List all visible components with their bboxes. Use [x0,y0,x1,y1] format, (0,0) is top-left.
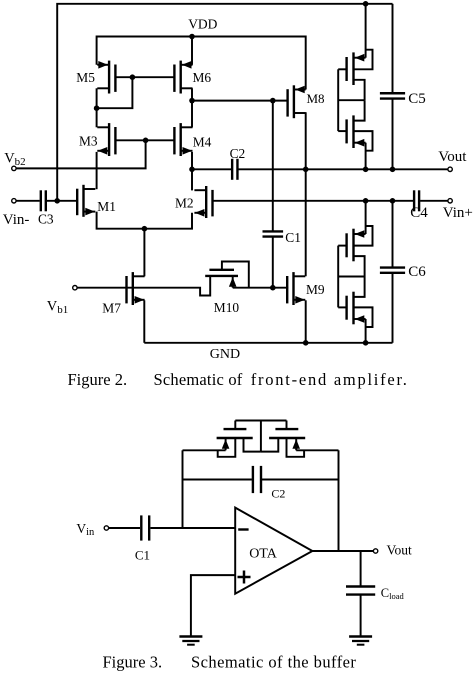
svg-text:M8: M8 [307,91,325,106]
label M3 [79,133,98,148]
wire: Vb2 line [16,140,146,168]
wire: Vin+ line to bottom stack [365,201,367,234]
transistor M8 [288,85,306,118]
label Vin- [3,212,30,228]
junction: M1 gate / top-rail wire [54,198,60,204]
terminal Vin- [12,199,16,203]
label C1 [285,230,301,245]
OTA inverting input sign [238,528,248,530]
wire: Vout to Cload [360,551,362,587]
label Vin+ [443,205,473,221]
pseudo-resistor transistor MF2 [261,421,305,457]
transistor M3 [97,123,115,156]
wire: tail to M7 drain [143,229,145,277]
wire: M5 drain to M3 source [96,88,98,127]
wire: C5 branch upper [392,4,394,94]
transistor M9 [287,272,305,305]
label Vout (buffer) [387,543,413,558]
label M5 [76,70,95,85]
svg-text:M3: M3 [79,133,98,148]
terminal Vin+ [448,199,452,203]
svg-text:M6: M6 [193,70,212,85]
wire: M2 drain [191,169,193,190]
transistor M4 [174,123,192,156]
label Vb2 [4,150,25,168]
capacitor C4 [414,190,419,211]
label C4 [410,205,428,221]
wire: C1 to OTA inverting input [151,527,236,529]
wire: C2 line left [183,479,252,481]
wire: differential pair tail [97,212,192,229]
wire: C6 branch upper [392,201,394,268]
transistor M2 [194,186,212,218]
junction: M6 source on VDD rail [189,34,195,40]
svg-text:C3: C3 [38,212,54,227]
svg-text:Figure 2.: Figure 2. [68,370,128,389]
svg-text:M5: M5 [76,70,95,85]
label Cload [381,586,405,601]
label C2 (buffer) [271,487,285,501]
junction: M9 source on GND [303,340,309,346]
wire: OTA output to Vout [312,550,373,552]
svg-text:M9: M9 [306,282,325,297]
transistor M5 [97,61,115,94]
junction: Vb2 tap on gate line [143,138,149,144]
label Vout [438,149,467,165]
svg-text:Vin-: Vin- [3,212,30,228]
junction: top rail / stack top [363,1,369,7]
label Vb1 [47,298,68,316]
label M7 [102,301,121,316]
svg-text:C2: C2 [230,146,246,161]
svg-text:Schematic of: Schematic of [154,370,243,389]
junction: C6 top on Vin+ line [390,198,396,204]
terminal Vb1 [73,286,77,290]
wire: Cload to ground [360,595,362,637]
svg-text:C1: C1 [135,548,150,563]
label M6 [193,70,212,85]
wire: M9 source to GND rail [305,300,307,343]
label Vin (buffer) [76,521,95,538]
svg-text:M10: M10 [214,300,240,315]
junction: stack bottom on Vout line [363,167,369,173]
label GND [210,347,240,362]
terminal Vb2 [12,166,16,170]
transistor M7 [127,272,145,305]
ground (OTA + input) [179,637,202,645]
junction: C5 bottom on Vout line [390,167,396,173]
svg-text:C6: C6 [408,264,426,280]
wire: Vout line [238,168,448,170]
svg-text:front-end amplifer.: front-end amplifer. [251,370,409,389]
capacitor C5 [380,93,405,98]
label C5 [408,91,426,107]
svg-text:M2: M2 [175,196,194,211]
junction: C1 top tap [270,98,276,104]
terminal Vout [448,167,452,171]
capacitor C1 [263,231,284,236]
wire: bottom stack to GND rail [365,319,367,343]
wire: M9 drain to M8 drain [305,112,307,276]
wire: first-stage output to C2 [192,168,231,170]
svg-text:Vout: Vout [438,149,467,165]
wire: M5 diode connection link [97,77,133,108]
wire: M5-M6 gate line [115,76,174,78]
label M10 [214,300,240,315]
junction: bottom stack top on Vin+ line [363,198,369,204]
wire: OTA + input to ground [191,575,235,636]
wire: C5 branch lower [392,99,394,170]
wire: C1 branch upper [272,101,274,232]
OTA non-inverting input sign [238,571,251,584]
wire: left rail line [183,449,226,451]
wire: Vin- line to M1 gate [16,200,77,202]
terminal Vout (buffer) [373,549,377,553]
svg-text:C2: C2 [271,487,285,501]
terminal Vin (buffer) [104,526,108,530]
label M4 [193,134,212,149]
wire: M3 drain to M1 drain [96,152,98,189]
wire: M7 source to GND rail [143,300,145,343]
wire: left feedback rail [182,450,184,528]
wire: Vin to C1 [109,527,140,529]
wire: M4 drain to output node of first stage [191,152,193,169]
svg-text:C1: C1 [285,230,301,245]
junction: C1 bottom node [270,285,276,291]
wire: GND rail [144,342,392,344]
label C1 (buffer) [135,548,150,563]
wire: C6 branch lower to GND corner [392,273,394,343]
transistor M10 [205,262,288,288]
wire: M2 gate line / Vin+ line [213,200,448,202]
label C2 [230,146,246,161]
caption figure 2 [68,370,409,389]
wire: gates tie bar [235,420,286,422]
wire: C2 line right [262,479,339,481]
svg-text:M1: M1 [97,199,116,214]
label OTA [249,547,278,562]
junction: M8 gate tap on M6 drain [189,98,195,104]
capacitor C6 [380,268,405,273]
wire: top rail to pseudo-resistor stack [365,4,367,58]
label M1 [97,199,116,214]
svg-text:C5: C5 [408,91,426,107]
svg-text:Schematic of the buffer: Schematic of the buffer [191,652,356,671]
wire: right rail line [296,449,338,451]
transistor M6 [174,61,192,94]
label M2 [175,196,194,211]
pseudo-resistor transistor MF1 [217,421,261,457]
svg-text:Vin+: Vin+ [443,205,473,221]
capacitor C2 [232,159,237,180]
op-amp OTA [235,508,312,594]
capacitor C3 [41,190,46,211]
junction: gate line tap [130,74,136,80]
wire: C1 branch lower [272,237,274,288]
label C6 [408,264,426,280]
capacitor C1 (buffer) [141,515,149,540]
caption figure 3 [103,652,357,671]
junction: M4/M2 drain node [189,167,195,173]
transistor M1 [77,185,95,217]
label M8 [307,91,325,106]
svg-text:OTA: OTA [249,547,278,562]
svg-text:M4: M4 [193,134,212,149]
junction: tail node [142,226,148,232]
svg-text:Vout: Vout [387,543,413,558]
ground (Cload) [349,637,372,645]
label M9 [306,282,325,297]
pseudo-resistor stack MR1/MR2 (C5 clamp) [338,50,372,151]
wire: M3-M4 gate line [115,139,174,141]
svg-text:Figure 3.: Figure 3. [103,652,163,671]
wire: M8 gate line [192,100,288,102]
wire: center tie [260,421,262,452]
wire: right feedback rail [338,450,340,551]
capacitor Cload [346,587,375,595]
wire: M6 drain to M4 source [191,88,193,127]
svg-text:GND: GND [210,347,240,362]
label VDD [188,16,217,31]
wire: Vb1 line through M7 gate to M10 jog [77,276,210,296]
junction: M5 drain node [94,105,100,111]
capacitor C2 (buffer) [253,466,261,493]
wire: M6 source to VDD rail [191,37,193,65]
junction: output node on Vout line [303,167,309,173]
svg-text:VDD: VDD [188,16,217,31]
svg-text:M7: M7 [102,301,121,316]
wire: VDD rail with M5 and M8 source drops [97,37,306,90]
pseudo-resistor stack MR3/MR4 (C6 clamp) [338,226,372,327]
svg-text:C4: C4 [410,205,428,221]
label C3 [38,212,54,227]
wire: top rail and M1 gate wire (node A) [57,4,392,201]
wire: stack bottom to Vout line [365,143,367,170]
junction: stack bottom on GND [363,340,369,346]
